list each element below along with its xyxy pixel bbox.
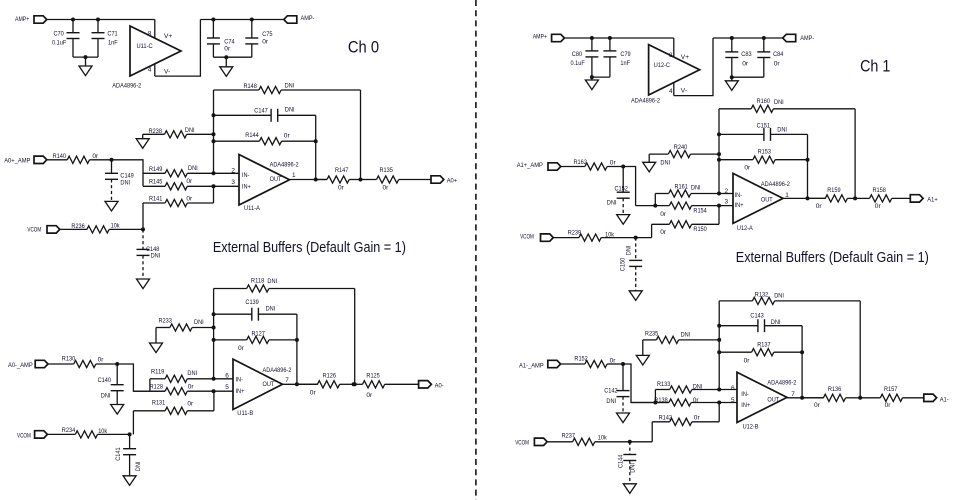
resistor R239	[553, 237, 579, 239]
svg-text:R240: R240	[674, 144, 688, 151]
junction	[314, 139, 318, 143]
junction	[653, 401, 657, 405]
svg-text:R161: R161	[675, 184, 689, 191]
wire C151 to output	[807, 134, 809, 198]
svg-text:V-: V-	[681, 88, 687, 95]
connector A1-	[924, 394, 937, 401]
junction	[353, 382, 357, 386]
junction	[608, 36, 612, 40]
svg-text:R239: R239	[568, 229, 582, 236]
wire C147 to output	[315, 115, 317, 179]
svg-text:U12-B: U12-B	[743, 424, 759, 431]
svg-text:R147: R147	[335, 167, 349, 174]
resistor R144	[214, 140, 260, 142]
capacitor C79	[609, 38, 611, 51]
junction	[352, 382, 356, 386]
svg-text:10k: 10k	[605, 232, 615, 239]
ground	[136, 139, 149, 149]
resistor R149	[143, 172, 165, 174]
svg-text:C71: C71	[107, 31, 118, 38]
svg-text:R132: R132	[755, 292, 769, 299]
wire to pin 2	[214, 172, 240, 174]
wire V- to AMP- rail	[674, 38, 713, 96]
resistor R141	[142, 203, 144, 229]
junction	[84, 55, 88, 59]
svg-text:DNI: DNI	[120, 179, 130, 186]
svg-text:C149: C149	[120, 172, 134, 179]
junction	[212, 113, 216, 117]
svg-text:DNI: DNI	[625, 245, 632, 255]
svg-text:DNI: DNI	[606, 398, 616, 405]
svg-text:0r: 0r	[610, 358, 617, 365]
svg-text:R158: R158	[873, 187, 887, 194]
wire AMP+ rail	[47, 19, 155, 21]
resistor R161	[654, 194, 656, 206]
svg-text:V+: V+	[164, 33, 172, 40]
svg-text:A0-: A0-	[435, 382, 444, 389]
divider dashed line	[475, 0, 477, 500]
svg-text:V+: V+	[681, 54, 689, 61]
resistor R118	[214, 288, 247, 290]
svg-text:1nF: 1nF	[108, 39, 118, 46]
svg-text:0r: 0r	[875, 203, 882, 210]
junction	[295, 382, 299, 386]
svg-text:R238: R238	[149, 128, 163, 135]
ground	[123, 476, 136, 486]
connector AMP+	[34, 16, 47, 23]
capacitor C70	[72, 20, 74, 33]
resistor R128	[133, 390, 165, 392]
svg-text:DNI: DNI	[774, 99, 784, 106]
svg-text:A1+_AMP: A1+_AMP	[517, 162, 544, 169]
junction	[717, 158, 721, 162]
junction	[250, 18, 254, 22]
svg-text:R140: R140	[53, 153, 67, 160]
svg-text:2: 2	[724, 188, 728, 195]
junction	[717, 324, 721, 328]
resistor R160	[719, 108, 751, 110]
svg-text:0r: 0r	[338, 184, 345, 191]
svg-text:A1-: A1-	[940, 396, 949, 403]
connector A1-_AMP	[548, 360, 561, 367]
resistor R140	[47, 159, 68, 161]
junction	[590, 75, 594, 79]
svg-text:R135: R135	[380, 167, 394, 174]
svg-text:0r: 0r	[92, 153, 99, 160]
junction	[224, 55, 228, 59]
svg-text:DNI: DNI	[681, 332, 691, 339]
svg-text:R131: R131	[152, 400, 166, 407]
resistor R132	[719, 300, 752, 302]
op-amp U12-C	[649, 45, 700, 95]
connector A1+_AMP	[548, 163, 561, 170]
resistor R158	[855, 197, 869, 199]
svg-text:C147: C147	[254, 107, 268, 114]
svg-text:R149: R149	[149, 166, 163, 173]
resistor R130	[48, 363, 74, 365]
svg-text:ADA4896-2: ADA4896-2	[270, 161, 299, 168]
connector AMP-	[284, 16, 297, 23]
svg-text:7: 7	[285, 377, 289, 384]
svg-text:0r: 0r	[284, 132, 291, 139]
junction	[115, 362, 119, 366]
svg-text:0r: 0r	[366, 392, 373, 399]
svg-text:DNI: DNI	[187, 370, 197, 377]
svg-text:VCOM: VCOM	[27, 227, 41, 234]
resistor R135	[361, 179, 377, 181]
resistor R145	[143, 185, 165, 187]
svg-text:6: 6	[225, 373, 229, 380]
capacitor C150	[635, 238, 637, 261]
svg-text:DNI: DNI	[774, 293, 784, 300]
wire to R150	[636, 237, 652, 239]
wire R118 to output	[354, 289, 356, 385]
svg-text:IN+: IN+	[741, 402, 750, 409]
svg-text:ADA4896-2: ADA4896-2	[112, 83, 141, 90]
svg-text:U11-B: U11-B	[237, 410, 253, 417]
ground	[731, 77, 733, 81]
junction	[717, 388, 721, 392]
wire output	[283, 383, 318, 385]
connector AMP-	[783, 34, 796, 41]
svg-text:External Buffers (Default Gain: External Buffers (Default Gain = 1)	[736, 250, 929, 266]
op-amp U11-B	[233, 359, 283, 409]
svg-text:C80: C80	[572, 51, 583, 58]
junction	[653, 204, 657, 208]
svg-text:AMP-: AMP-	[800, 35, 814, 42]
junction	[71, 18, 75, 22]
svg-text:R236: R236	[71, 223, 85, 230]
wire input trunk	[112, 160, 144, 187]
svg-text:DNI: DNI	[777, 127, 787, 134]
resistor R125	[354, 383, 363, 385]
connector VCOM	[47, 226, 60, 233]
junction	[717, 152, 721, 156]
junction	[110, 158, 114, 162]
connector VCOM	[534, 438, 547, 445]
resistor R138	[631, 402, 669, 404]
junction	[730, 75, 734, 79]
svg-text:C144: C144	[617, 454, 624, 468]
junction	[717, 401, 721, 405]
resistor R236	[60, 228, 87, 230]
svg-text:0r: 0r	[660, 211, 667, 218]
svg-text:1nF: 1nF	[620, 60, 630, 67]
svg-text:AMP+: AMP+	[15, 16, 29, 23]
resistor R153	[719, 159, 753, 161]
junction	[628, 440, 632, 444]
svg-text:0r: 0r	[610, 159, 617, 166]
svg-text:R144: R144	[245, 132, 259, 139]
svg-text:A0+_AMP: A0+_AMP	[4, 157, 31, 164]
svg-text:External Buffers (Default Gain: External Buffers (Default Gain = 1)	[213, 240, 406, 256]
wire to pin 3	[214, 185, 240, 187]
svg-text:R133: R133	[657, 381, 671, 388]
capacitor C151	[719, 133, 764, 135]
svg-text:C152: C152	[615, 186, 629, 193]
junction	[212, 389, 216, 393]
svg-text:8: 8	[669, 52, 673, 59]
svg-text:0r: 0r	[660, 229, 667, 236]
svg-text:A0+: A0+	[447, 178, 457, 185]
ground	[623, 484, 636, 494]
svg-text:C140: C140	[98, 377, 112, 384]
resistor R234	[47, 433, 75, 435]
wire AMP- rail	[200, 19, 283, 21]
capacitor C152	[622, 167, 624, 193]
resistor R126	[297, 383, 318, 385]
wire R160 to output	[854, 109, 856, 199]
junction	[212, 132, 216, 136]
svg-text:DNI: DNI	[188, 165, 198, 172]
svg-text:R137: R137	[757, 341, 771, 348]
junction	[96, 18, 100, 22]
ground	[629, 291, 642, 301]
svg-text:R150: R150	[693, 226, 707, 233]
svg-text:DNI: DNI	[607, 200, 617, 207]
wire cap bottoms	[592, 76, 610, 78]
junction	[128, 432, 132, 436]
junction	[212, 139, 216, 143]
svg-text:U11-A: U11-A	[244, 205, 260, 212]
svg-text:IN-: IN-	[741, 391, 749, 398]
wire output	[290, 179, 327, 181]
svg-text:C75: C75	[262, 31, 273, 38]
svg-text:IN+: IN+	[236, 388, 245, 395]
svg-text:5: 5	[731, 397, 735, 404]
capacitor C143	[719, 325, 758, 327]
svg-text:DNI: DNI	[693, 383, 703, 390]
svg-text:5: 5	[225, 384, 229, 391]
svg-text:R126: R126	[323, 373, 337, 380]
capacitor C140	[116, 364, 118, 385]
svg-text:R233: R233	[159, 318, 173, 325]
svg-text:U11-C: U11-C	[137, 43, 153, 50]
connector A0+	[431, 176, 444, 183]
svg-text:DNI: DNI	[267, 278, 277, 285]
resistor R237	[547, 441, 572, 443]
svg-text:R141: R141	[149, 196, 163, 203]
svg-text:VCOM: VCOM	[520, 233, 534, 240]
svg-text:1: 1	[292, 172, 296, 179]
wire R132 to output	[859, 301, 861, 398]
svg-text:DNI: DNI	[151, 252, 161, 259]
junction	[800, 350, 804, 354]
op-amp U11-A	[239, 155, 290, 206]
svg-text:6: 6	[731, 385, 735, 392]
svg-text:0r: 0r	[262, 39, 269, 46]
svg-text:ADA4896-2: ADA4896-2	[761, 181, 790, 188]
svg-text:0r: 0r	[744, 357, 751, 364]
svg-text:OUT: OUT	[270, 176, 282, 183]
wire cap bottoms	[73, 56, 98, 58]
svg-text:0r: 0r	[238, 345, 245, 352]
junction	[621, 362, 625, 366]
junction	[359, 178, 363, 182]
svg-text:DNI: DNI	[266, 305, 276, 312]
junction	[634, 236, 638, 240]
resistor R142	[651, 422, 653, 442]
capacitor C75	[251, 20, 253, 39]
svg-text:C142: C142	[604, 388, 618, 395]
svg-text:IN-: IN-	[236, 377, 244, 384]
wire input trunk	[623, 364, 669, 403]
ground	[105, 201, 118, 211]
svg-text:C139: C139	[245, 299, 259, 306]
svg-text:R130: R130	[62, 356, 76, 363]
svg-text:OUT: OUT	[761, 197, 773, 204]
svg-text:R128: R128	[150, 384, 164, 391]
svg-text:DNI: DNI	[285, 83, 295, 90]
wire input trunk	[117, 364, 165, 391]
svg-text:R125: R125	[366, 373, 380, 380]
ground	[150, 343, 163, 353]
svg-text:0r: 0r	[383, 184, 390, 191]
junction	[717, 192, 721, 196]
svg-text:ADA4896-2: ADA4896-2	[263, 367, 292, 374]
resistor R136	[802, 397, 823, 399]
wire R148 to output	[360, 90, 362, 180]
resistor R137	[719, 351, 751, 353]
svg-text:A1-_AMP: A1-_AMP	[519, 362, 544, 369]
svg-text:0r: 0r	[187, 401, 194, 408]
svg-text:DNI: DNI	[771, 319, 781, 326]
svg-text:0r: 0r	[742, 61, 749, 68]
ground	[643, 162, 656, 172]
pin 4 wire V-	[154, 63, 156, 76]
wire to pin 6	[719, 389, 737, 391]
wire C143 to output	[801, 326, 803, 398]
junction	[717, 132, 721, 136]
svg-text:IN-: IN-	[735, 192, 743, 199]
junction	[800, 396, 804, 400]
svg-text:U12-A: U12-A	[737, 225, 753, 232]
svg-text:R159: R159	[827, 187, 841, 194]
svg-text:0r: 0r	[224, 45, 231, 52]
junction	[762, 36, 766, 40]
wire IN- feedback node	[718, 109, 720, 194]
resistor R233	[155, 328, 157, 344]
junction	[858, 396, 862, 400]
svg-text:U12-C: U12-C	[654, 62, 670, 69]
svg-text:OUT: OUT	[767, 396, 779, 403]
svg-text:DNI: DNI	[194, 319, 204, 326]
capacitor C139	[214, 313, 252, 315]
ground	[85, 57, 87, 66]
junction	[212, 377, 216, 381]
wire AMP+ rail	[564, 37, 673, 39]
op-amp U12-A	[733, 173, 783, 223]
svg-text:0r: 0r	[744, 165, 751, 172]
svg-text:R157: R157	[884, 386, 898, 393]
wire AMP- rail	[713, 37, 783, 39]
svg-text:0r: 0r	[98, 356, 105, 363]
wire output	[783, 197, 826, 199]
resistor R162	[561, 166, 585, 168]
capacitor C74	[212, 20, 214, 39]
junction	[853, 196, 857, 200]
wire to pin 6	[214, 378, 233, 380]
capacitor C80	[591, 38, 593, 51]
wire cap bottoms	[213, 56, 251, 58]
connector VCOM	[35, 431, 48, 438]
ground	[137, 279, 150, 289]
svg-text:10k: 10k	[98, 428, 108, 435]
svg-text:R119: R119	[151, 369, 165, 376]
wire input trunk	[623, 167, 635, 206]
svg-text:DNI: DNI	[660, 160, 670, 167]
svg-text:AMP+: AMP+	[533, 33, 547, 40]
resistor R240	[648, 154, 650, 162]
junction	[212, 171, 216, 175]
junction	[621, 165, 625, 169]
svg-text:R235: R235	[645, 331, 659, 338]
svg-text:AMP-: AMP-	[301, 15, 315, 22]
capacitor C84	[763, 38, 765, 52]
svg-text:0r: 0r	[693, 397, 700, 404]
resistor R157	[860, 397, 880, 399]
svg-text:0.1uF: 0.1uF	[52, 39, 66, 46]
svg-text:Ch 1: Ch 1	[860, 57, 890, 76]
svg-text:7: 7	[791, 391, 795, 398]
op-amp U11-C	[130, 26, 181, 76]
svg-text:DNI: DNI	[691, 185, 701, 192]
ground	[617, 413, 630, 423]
ground	[636, 355, 649, 365]
resistor R133	[654, 390, 656, 403]
svg-text:R145: R145	[149, 178, 163, 185]
junction	[211, 18, 215, 22]
wire IN- feedback node	[718, 301, 720, 390]
junction	[314, 178, 318, 182]
junction	[730, 36, 734, 40]
wire IN- feedback node	[213, 90, 215, 173]
capacitor C141	[129, 434, 131, 448]
junction	[212, 184, 216, 188]
svg-text:R118: R118	[251, 277, 265, 284]
svg-text:DNI: DNI	[285, 107, 295, 114]
svg-text:R152: R152	[574, 356, 588, 363]
svg-text:R160: R160	[757, 98, 771, 105]
wire V- to AMP- rail	[155, 20, 201, 77]
svg-text:0r: 0r	[885, 402, 892, 409]
svg-text:0.1uF: 0.1uF	[571, 60, 585, 67]
svg-text:IN+: IN+	[242, 183, 251, 190]
ground	[591, 77, 593, 80]
svg-text:A1+: A1+	[927, 196, 937, 203]
svg-text:0r: 0r	[694, 415, 701, 422]
resistor R154	[636, 205, 670, 207]
junction	[806, 196, 810, 200]
svg-text:2: 2	[231, 167, 235, 174]
svg-text:C84: C84	[773, 51, 784, 58]
ground	[111, 405, 124, 415]
svg-text:R153: R153	[758, 148, 772, 155]
svg-text:10k: 10k	[111, 222, 121, 229]
resistor R147	[316, 179, 327, 181]
svg-text:0r: 0r	[186, 178, 193, 185]
svg-text:Ch 0: Ch 0	[348, 37, 379, 56]
svg-text:DNI: DNI	[135, 461, 142, 471]
svg-text:IN+: IN+	[735, 202, 744, 209]
svg-text:3: 3	[724, 198, 728, 205]
wire C139 to output	[296, 314, 298, 384]
svg-text:C143: C143	[750, 313, 764, 320]
svg-text:C150: C150	[619, 258, 626, 272]
junction	[717, 350, 721, 354]
capacitor C144	[629, 442, 631, 455]
svg-text:0r: 0r	[186, 195, 193, 202]
